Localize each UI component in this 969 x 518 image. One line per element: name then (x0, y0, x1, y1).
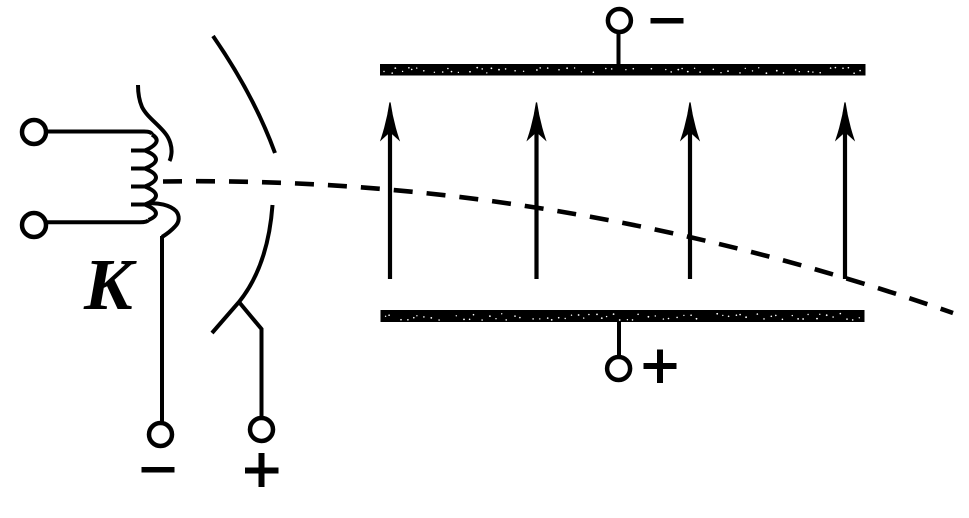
terminal T2 filament lead B (22, 213, 46, 237)
terminal negative of gun supply (149, 423, 172, 446)
terminal positive of gun supply (250, 418, 273, 441)
anode top arc (213, 36, 275, 153)
anode bottom arc (212, 205, 273, 333)
label minus top plate (651, 18, 684, 24)
field arrow 4 (836, 103, 854, 280)
filament heater coil (145, 135, 157, 221)
terminal bottom plate (607, 357, 630, 380)
wire bottom plate to terminal (617, 322, 621, 357)
filament coil back ticks (131, 151, 146, 205)
terminal T1 filament lead A (22, 120, 46, 144)
label minus of gun supply (142, 467, 175, 473)
wire cathode to negative terminal (160, 236, 164, 423)
label plus of gun supply (245, 453, 279, 487)
deflection plate top (380, 64, 866, 76)
label K cathode (84, 248, 133, 321)
wire anode to positive terminal (239, 302, 262, 418)
wire filament lead B (46, 220, 149, 222)
field arrow 3 (681, 103, 699, 280)
electron beam trajectory dashed (163, 181, 953, 313)
cathode K upper curve (138, 85, 172, 161)
wire filament lead A (46, 132, 152, 135)
field arrow 2 (528, 103, 546, 280)
field arrow 1 (381, 103, 399, 280)
cathode K lower curve (147, 203, 179, 237)
deflection plate bottom (381, 310, 865, 322)
wire top plate to terminal (617, 33, 621, 64)
label plus bottom plate (644, 350, 677, 384)
terminal top plate (608, 9, 631, 32)
